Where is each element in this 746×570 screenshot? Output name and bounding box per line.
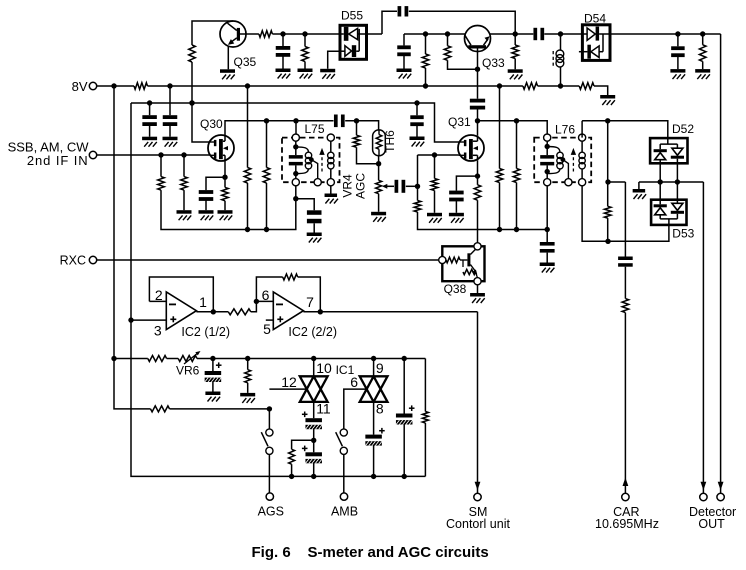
resistor R (x=417.5): [414, 201, 421, 213]
junction: [189, 100, 194, 105]
resistor R (x=192): [189, 45, 196, 62]
ground detector node: [633, 182, 646, 199]
wire 8V rail left: [97, 85, 134, 87]
terminal AGS: [258, 493, 284, 519]
transistor Q31 (dual-gate MOSFET): [448, 115, 484, 161]
diode D55: [340, 9, 367, 60]
ground Q38: [470, 293, 485, 303]
junction: [658, 179, 663, 184]
svg-text:S-meter and AGC circuits: S-meter and AGC circuits: [308, 544, 489, 561]
wire gate1 vert: [313, 359, 315, 377]
resistor R (x=434.5): [431, 155, 438, 213]
terminal L76 top-left: [544, 134, 551, 141]
inductor L75 secondary: [328, 141, 334, 179]
svg-text:6: 6: [350, 374, 358, 390]
junction: [245, 83, 250, 88]
wire detector line 2: [720, 34, 722, 493]
ground: [307, 233, 322, 243]
junction: [415, 184, 420, 189]
wire x=114 column: [113, 86, 115, 359]
junction: [222, 175, 227, 180]
resistor R (x=247.7): [245, 359, 251, 393]
wire detector line 1: [702, 182, 704, 493]
wire op2 pin5 stub: [266, 319, 274, 321]
ground: [218, 210, 233, 220]
resistor R (x=703): [699, 34, 706, 69]
junction: [111, 83, 116, 88]
wire Q35 collector top: [192, 21, 233, 45]
resistor R (VR6 feed): [151, 406, 170, 412]
junction: [245, 227, 250, 232]
wire Q33 base down: [477, 52, 479, 99]
wire to Q38 top: [477, 242, 479, 244]
junction: [293, 118, 298, 123]
ground: [240, 393, 255, 403]
resistor R (x=477.5): [474, 176, 481, 243]
junction: [558, 83, 563, 88]
wire feed to AGS node: [170, 408, 270, 410]
wire L76 bot-left down: [546, 186, 548, 230]
wire RXC: [97, 259, 443, 261]
potentiometer VR6: [176, 351, 200, 378]
wire y=103 rail: [131, 102, 417, 104]
svg-text:5: 5: [263, 321, 271, 337]
svg-text:L75: L75: [305, 122, 325, 136]
wire L75 primary feed: [295, 121, 297, 135]
wire L75 left vert: [295, 141, 297, 179]
svg-text:AMB: AMB: [331, 505, 358, 519]
resistor R (x=425): [422, 54, 429, 68]
wire gate2 vert: [373, 359, 375, 377]
wire y=34 to cap: [515, 33, 533, 35]
terminal L76 bot-mid: [565, 179, 572, 186]
wire Q30 source: [224, 161, 226, 178]
svg-text:8V: 8V: [72, 79, 88, 94]
junction: [675, 31, 680, 36]
wire x=425 stub: [425, 34, 427, 86]
capacitor C (x=206): [199, 190, 214, 210]
wire y=103 to Q31 gate2: [417, 103, 460, 142]
terminal L76 top-right: [579, 134, 586, 141]
svg-text:TH6: TH6: [383, 130, 397, 153]
wire to VR4 node: [357, 147, 379, 163]
wire 8V rail: [538, 85, 580, 87]
svg-text:L76: L76: [555, 123, 575, 137]
wire Q35 base out: [246, 33, 259, 35]
junction: [675, 179, 680, 184]
capacitor C+ (gate1 a): [302, 412, 322, 430]
junction: [181, 152, 186, 157]
wire x=114 to VR6 feed: [114, 359, 151, 409]
wire x=192 down: [191, 62, 193, 103]
transformer L76: [534, 123, 591, 183]
resistor R (interstage): [228, 309, 251, 315]
capacitor C (CAR): [618, 257, 633, 299]
ground: [177, 210, 192, 220]
junction: [128, 317, 133, 322]
arrow SM: [475, 482, 481, 491]
junction: [158, 152, 163, 157]
terminal L75 top-left: [292, 134, 299, 141]
svg-text:Contorl unit: Contorl unit: [446, 517, 510, 531]
wire D54 out: [610, 33, 721, 35]
ground D55: [320, 69, 335, 79]
svg-text:2nd IF IN: 2nd IF IN: [27, 153, 89, 168]
junction: [497, 227, 502, 232]
junction: [605, 118, 610, 123]
terminal Q38 top: [474, 243, 481, 250]
ground: [427, 213, 442, 223]
transistor Q33: [465, 26, 506, 71]
capacitor C+ (VR6): [205, 359, 222, 392]
terminal L75 top-right: [327, 134, 334, 141]
junction: [605, 239, 610, 244]
junction: [432, 152, 437, 157]
arrow CAR: [623, 478, 629, 487]
wire Q30 drain up: [225, 121, 334, 136]
wire op1 out: [196, 311, 228, 313]
wire SSB input: [97, 154, 210, 156]
wire L76 sec bottom down: [582, 186, 608, 242]
analog switch IC1 (pins 12,10,11): [281, 360, 354, 416]
junction: [210, 356, 215, 361]
ground: [276, 69, 291, 79]
svg-text:1: 1: [199, 294, 207, 310]
caption: [252, 544, 489, 561]
wire cap to node: [477, 109, 479, 121]
junction: [147, 100, 152, 105]
junction bottom rail: [289, 474, 407, 479]
wire D52 to node: [660, 163, 677, 182]
svg-text:D54: D54: [584, 11, 606, 25]
resistor R (bias rail): [148, 356, 167, 362]
capacitor C (x=314): [307, 210, 322, 232]
capacitor C (bypass, series): [398, 6, 409, 16]
op-amp IC2 (1/2): [154, 287, 230, 339]
resistor R (x=184): [181, 155, 188, 210]
capacitor C (x=547): [540, 230, 555, 263]
wire gate2 to cap: [373, 402, 375, 435]
op-amp IC2 (2/2): [262, 287, 337, 339]
wire Q31 gate1 line: [418, 154, 459, 156]
terminal L76 bot-left: [544, 179, 551, 186]
transistor Q30 (dual-gate MOSFET): [200, 117, 234, 161]
transistor Q35: [220, 21, 257, 69]
wire to D52: [608, 121, 668, 144]
capacitor C (x=477 series): [470, 99, 485, 110]
ground: [199, 210, 214, 220]
wire source elbow: [206, 177, 225, 190]
svg-text:AGC: AGC: [354, 173, 368, 199]
capacitor C+ (gate2): [365, 428, 384, 446]
terminal Q38 bottom: [474, 278, 481, 285]
wire gate1 to cap: [313, 402, 315, 418]
capacitor C (x=678): [671, 34, 685, 69]
wire op2 feedback: [256, 277, 282, 301]
inductor choke: [553, 34, 564, 86]
junction: [267, 406, 272, 411]
wire cap to D54: [544, 33, 582, 35]
wire AGS down: [268, 454, 270, 493]
svg-text:RXC: RXC: [60, 253, 86, 267]
wire Q35 emitter: [227, 46, 229, 70]
ground: [205, 392, 220, 402]
junction: [545, 227, 550, 232]
resistor R (CAR): [622, 299, 629, 313]
junction: [545, 144, 550, 149]
capacitor C (x=170): [163, 86, 178, 137]
terminal RXC: [60, 253, 97, 267]
junction: [513, 31, 518, 36]
terminal L76 bot-right: [579, 179, 586, 186]
arrow L76 coupling: [571, 148, 576, 172]
diode D52: [650, 122, 694, 163]
junction: [545, 169, 550, 174]
wire y=34: [272, 33, 340, 35]
junction: [311, 356, 316, 361]
junction: [280, 31, 285, 36]
capacitor C (L75 tank): [289, 155, 303, 165]
junction: [514, 227, 519, 232]
ground VR4: [371, 212, 386, 222]
svg-text:Fig. 6: Fig. 6: [252, 544, 291, 561]
ground L75 secondary: [325, 194, 338, 204]
junction: [376, 161, 381, 166]
wire into L76: [517, 121, 548, 135]
wire op1 pin2: [149, 300, 166, 302]
junction: [445, 31, 450, 36]
capacitor C (x=150): [142, 103, 157, 137]
svg-text:11: 11: [316, 401, 331, 417]
wire D55 bottom to ground: [328, 51, 340, 69]
junction: [423, 83, 428, 88]
wire CAR down: [624, 313, 626, 494]
svg-text:D53: D53: [672, 227, 694, 241]
resistor R (x=356.5): [353, 121, 360, 148]
ground: [410, 137, 425, 147]
svg-text:Q33: Q33: [482, 56, 505, 70]
wire op2 feedback right: [298, 277, 321, 312]
wire: [403, 424, 405, 477]
svg-text:VR6: VR6: [176, 364, 200, 378]
svg-text:12: 12: [281, 374, 297, 390]
wire 8V rail: [148, 85, 523, 87]
svg-text:Q31: Q31: [448, 115, 471, 129]
wire L75 sec to ground: [330, 186, 332, 194]
wire bypass to main: [409, 11, 515, 34]
resistor R (x=305): [302, 34, 309, 69]
wire y=34 through Q33: [490, 33, 515, 35]
junction: [605, 179, 610, 184]
ground: [508, 69, 523, 79]
svg-text:10: 10: [316, 360, 332, 376]
svg-text:7: 7: [306, 294, 314, 310]
wire to op2 pin6: [251, 301, 273, 311]
wire right edge of IC1 loop: [424, 359, 426, 412]
ground: [163, 137, 178, 147]
arrow detector 1: [701, 482, 707, 491]
wire source elbow: [456, 176, 477, 191]
wire VR4 wiper: [382, 184, 394, 189]
wire L76 left vert: [546, 141, 548, 179]
junction: [514, 118, 519, 123]
resistor R (x=447): [444, 34, 451, 60]
wire to rail ground: [594, 86, 608, 95]
resistor R (x=425.4): [422, 412, 428, 424]
terminal L75 bot-left: [292, 179, 299, 186]
wire up to bypass cap: [382, 11, 397, 34]
junction: [311, 438, 316, 443]
ground: [670, 69, 685, 79]
resistor on 8V rail (mid-right): [523, 83, 538, 90]
svg-text:10.695MHz: 10.695MHz: [595, 517, 659, 531]
capacitor C (x=283): [276, 34, 291, 69]
junction: [167, 83, 172, 88]
svg-text:VR4: VR4: [341, 174, 355, 198]
capacitor C (x=456): [449, 191, 464, 213]
ground: [298, 69, 313, 79]
wire op1 feedback: [149, 277, 213, 312]
wire drain line right: [478, 120, 548, 122]
junction: [414, 100, 419, 105]
junction: [264, 118, 269, 123]
junction: [423, 31, 428, 36]
junction: [111, 356, 116, 361]
resistor R (x=516.5): [513, 121, 520, 230]
resistor R (x=161): [158, 155, 165, 190]
ground: [695, 69, 710, 79]
wire x=417.5 branch: [417, 155, 419, 201]
wire Q31 drain: [477, 121, 479, 136]
diode D53: [651, 182, 695, 241]
arrow L75 coupling: [319, 148, 324, 172]
junction: [264, 227, 269, 232]
junction: [475, 67, 480, 72]
ground: [540, 263, 555, 273]
inductor L75 primary: [296, 147, 318, 179]
junction: [293, 144, 298, 149]
wire Q31 source: [477, 161, 479, 176]
wire AGC cap to x=417.5: [406, 185, 418, 187]
resistor on 8V rail (right): [579, 83, 594, 90]
capacitor C+ (gate1 b): [302, 446, 322, 464]
terminal Q38 left: [439, 256, 446, 263]
junction: [497, 83, 502, 88]
wire: [424, 423, 426, 476]
wire: [313, 428, 315, 452]
junction: [402, 356, 407, 361]
terminal L75 bot-mid: [314, 179, 321, 186]
switch AMB: [336, 429, 348, 455]
wire op2 out: [303, 311, 477, 313]
resistor R (x=291.6): [289, 440, 314, 476]
junction: [475, 118, 480, 123]
wire bias rail: [114, 358, 148, 360]
transformer L75: [282, 122, 340, 182]
ground: [449, 213, 464, 223]
inductor L76 primary: [547, 147, 568, 179]
analog switch IC1 (pins 6,9,8): [350, 360, 387, 416]
ground: [397, 69, 412, 79]
inductor L76 secondary: [579, 141, 585, 179]
wire: [373, 445, 375, 477]
ground rail end: [600, 95, 615, 105]
svg-text:Q30: Q30: [200, 117, 223, 131]
wire gate1 input: [269, 388, 306, 390]
svg-text:6: 6: [262, 287, 270, 303]
resistor R (x=266.5): [263, 121, 270, 230]
svg-text:AGS: AGS: [258, 505, 284, 519]
wire detector node: [639, 181, 704, 183]
capacitor C+ (x=404): [396, 405, 415, 424]
wire y=34 mid: [404, 33, 465, 35]
svg-text:8: 8: [376, 401, 384, 417]
terminal Detector OUT: [689, 493, 736, 531]
terminal AMB: [331, 493, 358, 519]
resistor on 8V rail (left): [134, 83, 148, 90]
capacitor C (x=404): [397, 34, 411, 69]
ground Q35 emitter: [220, 69, 235, 79]
svg-text:D52: D52: [672, 122, 694, 136]
svg-text:D55: D55: [341, 9, 363, 23]
svg-text:Q35: Q35: [234, 55, 257, 69]
wire CAR column: [624, 182, 626, 257]
svg-text:IC2 (1/2): IC2 (1/2): [181, 325, 230, 339]
resistor R (op2 feedback): [283, 274, 298, 280]
wire: [313, 462, 315, 476]
junction: [189, 100, 194, 105]
junction: [354, 118, 359, 123]
arrow detector 2: [718, 482, 724, 491]
junction: [700, 31, 705, 36]
wire x=192 to Q30 gate2: [192, 103, 210, 142]
svg-text:3: 3: [154, 322, 162, 338]
resistor R (x=247.5): [244, 86, 251, 230]
capacitor C (series, AGC): [395, 180, 406, 193]
wire D55 out: [367, 33, 383, 35]
capacitor C (L76 tank): [540, 155, 554, 165]
junction: [475, 173, 480, 178]
diode D54: [579, 11, 610, 60]
wire y=241 segment: [608, 225, 669, 241]
junction: [371, 356, 376, 361]
svg-text:IC2 (2/2): IC2 (2/2): [288, 325, 337, 339]
svg-text:OUT: OUT: [698, 517, 725, 531]
capacitor C (series x=539): [533, 28, 544, 40]
transistor Q38 (with bias resistors): [442, 246, 484, 296]
resistor R (x=515): [512, 34, 519, 69]
junction: [318, 309, 323, 314]
wire L76 sec out: [582, 121, 668, 138]
junction: [254, 299, 259, 304]
wire gate2 input: [344, 389, 367, 429]
wire op1 pin3: [131, 319, 166, 321]
capacitor C (x=417): [410, 103, 423, 137]
svg-text:9: 9: [376, 360, 384, 376]
thermistor TH6: [373, 130, 397, 164]
capacitor C (series, drain line): [334, 115, 345, 128]
wire L75 bottom node: [296, 199, 314, 211]
terminal 8V input: [72, 79, 97, 94]
wire to right rail: [418, 212, 548, 230]
ground: [142, 137, 157, 147]
junction: [211, 309, 216, 314]
junction: [558, 31, 563, 36]
wire x=131 column: [131, 103, 425, 476]
junction: [302, 31, 307, 36]
wire left bottom rail: [161, 186, 296, 230]
wire to TH6 node: [345, 121, 378, 130]
